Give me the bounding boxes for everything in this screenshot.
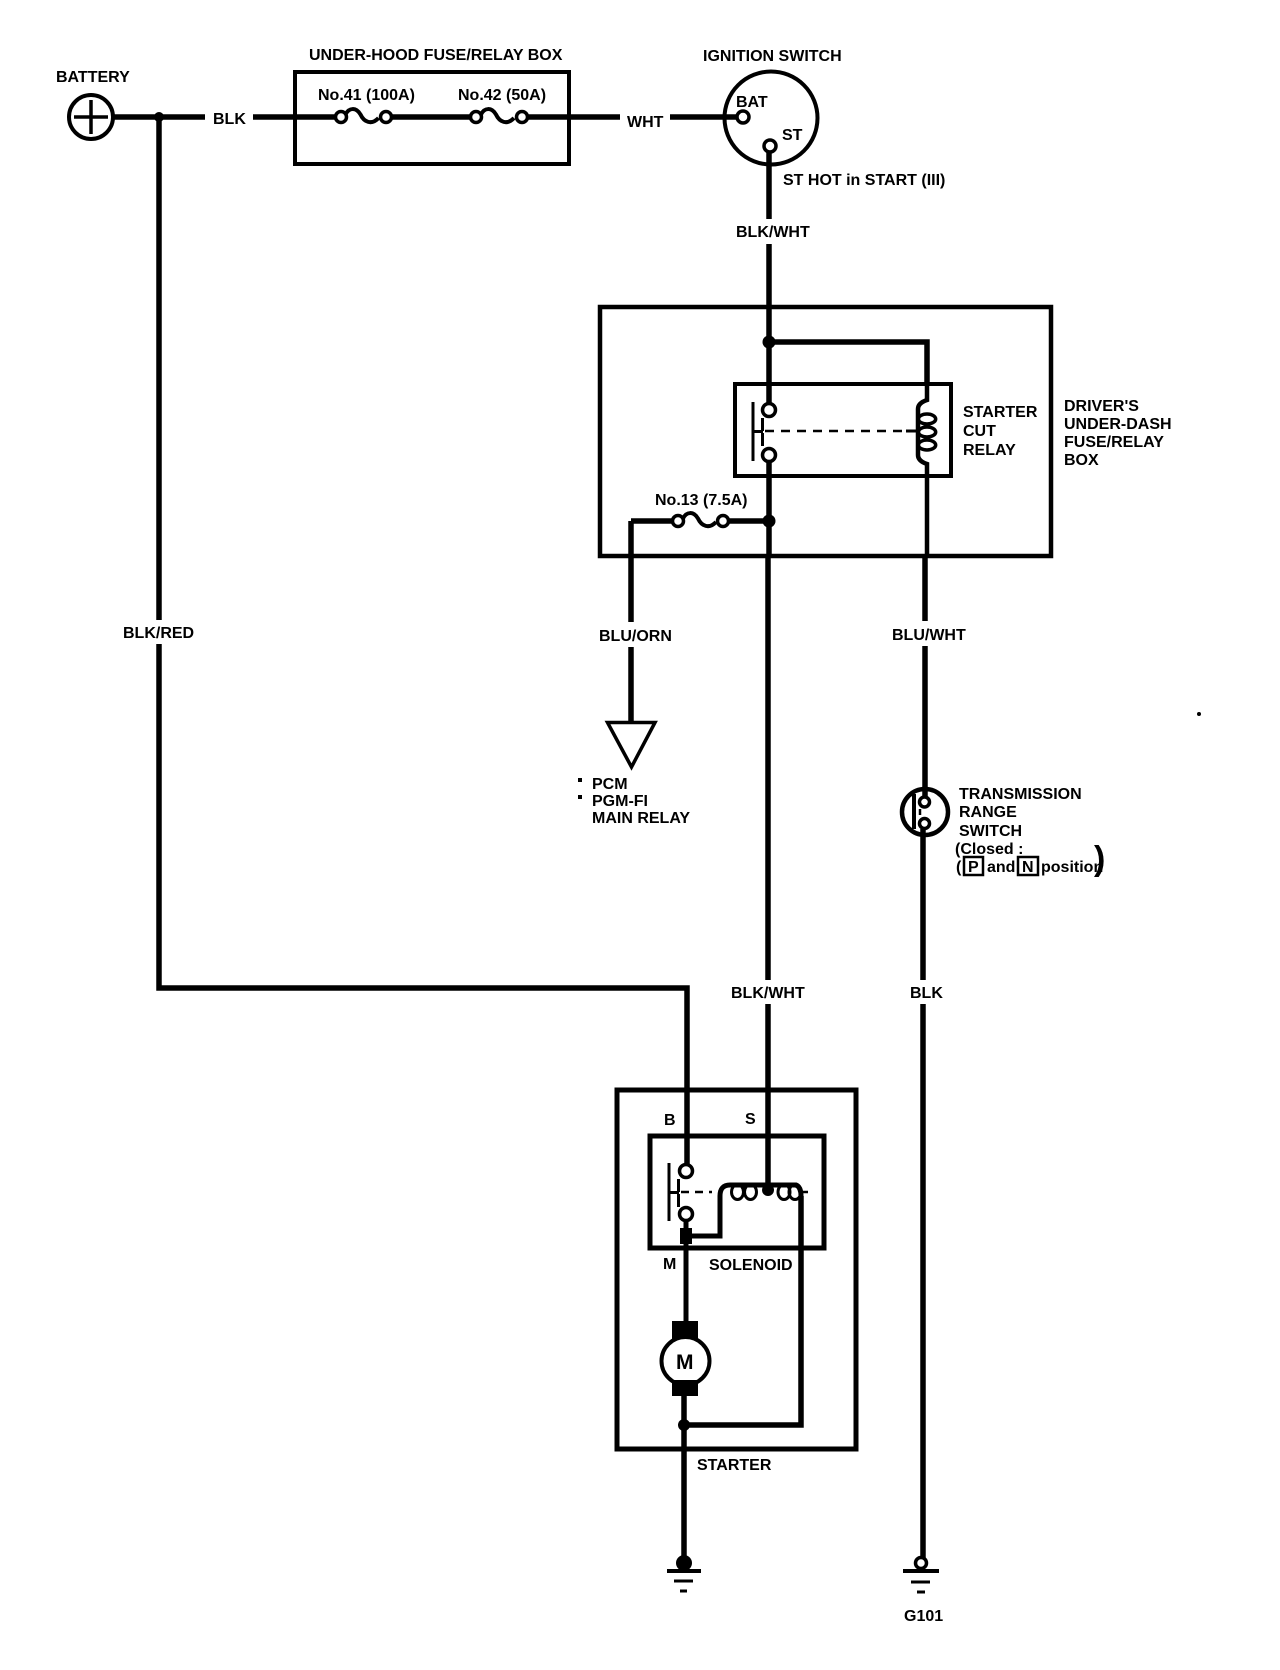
svg-text:RELAY: RELAY xyxy=(963,442,1016,459)
svg-text:RANGE: RANGE xyxy=(959,804,1017,821)
svg-text:N: N xyxy=(1022,859,1034,876)
svg-text:ST HOT in START (III): ST HOT in START (III) xyxy=(783,172,945,189)
svg-text:BATTERY: BATTERY xyxy=(56,69,130,86)
node under-dash top junction xyxy=(763,336,776,349)
wire fuse box to ignition, WHT xyxy=(528,108,737,131)
wire BLK to ground G101 xyxy=(902,829,946,1558)
svg-text:IGNITION SWITCH: IGNITION SWITCH xyxy=(703,48,842,65)
starter box xyxy=(617,1090,856,1474)
svg-text:WHT: WHT xyxy=(627,114,664,131)
fuse No.41 (100A) xyxy=(318,87,415,123)
svg-text:BLK/WHT: BLK/WHT xyxy=(736,224,810,241)
svg-text:BLK: BLK xyxy=(910,985,943,1002)
starter cut relay xyxy=(735,384,1038,556)
svg-text:BLK/RED: BLK/RED xyxy=(123,625,194,642)
svg-text:G101: G101 xyxy=(904,1608,943,1625)
svg-text:SOLENOID: SOLENOID xyxy=(709,1257,793,1274)
svg-text:(: ( xyxy=(956,859,962,876)
wire junction down to relay contact xyxy=(766,342,772,404)
svg-text:FUSE/RELAY: FUSE/RELAY xyxy=(1064,434,1164,451)
speck artifact xyxy=(1197,712,1201,716)
svg-text:BLU/WHT: BLU/WHT xyxy=(892,627,966,644)
ground starter xyxy=(667,1555,701,1591)
svg-text:DRIVER'S: DRIVER'S xyxy=(1064,398,1139,415)
wire BLU/WHT coil to transmission range switch xyxy=(886,556,968,800)
svg-text:S: S xyxy=(745,1111,756,1128)
node bottom junction xyxy=(678,1419,690,1431)
svg-text:STARTER: STARTER xyxy=(963,404,1038,421)
wire motor to ground xyxy=(681,1396,687,1563)
svg-text:PCM: PCM xyxy=(592,776,628,793)
wire junction to relay coil xyxy=(769,342,927,384)
svg-text:CUT: CUT xyxy=(963,423,996,440)
solenoid xyxy=(650,1136,824,1274)
svg-text:UNDER-DASH: UNDER-DASH xyxy=(1064,416,1172,433)
svg-text:STARTER: STARTER xyxy=(697,1457,772,1474)
svg-text:BLK: BLK xyxy=(213,111,246,128)
svg-text:M: M xyxy=(676,1351,694,1374)
svg-text:and: and xyxy=(987,859,1015,876)
node solenoid S junction xyxy=(762,1184,774,1196)
svg-text:UNDER-HOOD FUSE/RELAY BOX: UNDER-HOOD FUSE/RELAY BOX xyxy=(309,47,563,64)
driver's under-dash fuse/relay box xyxy=(600,307,1172,556)
svg-text:BAT: BAT xyxy=(736,94,768,111)
fuse No.42 (50A) xyxy=(458,87,546,123)
svg-text:): ) xyxy=(1094,840,1105,878)
wire M to motor xyxy=(684,1236,689,1325)
svg-text:No.42 (50A): No.42 (50A) xyxy=(458,87,546,104)
node battery junction xyxy=(154,112,164,122)
transmission range switch xyxy=(902,786,1105,878)
svg-text:M: M xyxy=(663,1256,676,1273)
svg-text:PGM-FI: PGM-FI xyxy=(592,793,648,810)
svg-text:P: P xyxy=(968,859,979,876)
wire BLK/WHT relay to solenoid xyxy=(726,556,806,1190)
wire BLU/ORN to PCM arrow xyxy=(578,521,690,827)
ignition switch xyxy=(703,48,945,189)
node fuse junction xyxy=(763,515,776,528)
svg-text:BLK/WHT: BLK/WHT xyxy=(731,985,805,1002)
motor M xyxy=(662,1321,710,1396)
wire solenoid coil right side down xyxy=(684,1196,801,1425)
svg-text:SWITCH: SWITCH xyxy=(959,823,1022,840)
fuse No.13 (7.5A) xyxy=(631,492,769,527)
wire battery to fuse box, BLK xyxy=(113,108,336,128)
wire between fuses xyxy=(392,114,471,120)
wire BLK/RED battery to starter B xyxy=(118,117,687,1167)
svg-text:TRANSMISSION: TRANSMISSION xyxy=(959,786,1082,803)
battery xyxy=(56,69,130,139)
svg-text:No.13 (7.5A): No.13 (7.5A) xyxy=(655,492,747,509)
svg-text:MAIN RELAY: MAIN RELAY xyxy=(592,810,690,827)
wire relay contact down through fuse junction xyxy=(766,461,772,556)
ground G101 xyxy=(903,1558,943,1626)
svg-text:ST: ST xyxy=(782,127,803,144)
svg-text:No.41 (100A): No.41 (100A) xyxy=(318,87,415,104)
svg-text:BOX: BOX xyxy=(1064,452,1099,469)
under-hood fuse/relay box xyxy=(295,47,569,164)
svg-text:(Closed :: (Closed : xyxy=(955,841,1023,858)
wire ST down, BLK/WHT xyxy=(730,152,810,342)
svg-text:BLU/ORN: BLU/ORN xyxy=(599,628,672,645)
svg-text:B: B xyxy=(664,1112,676,1129)
